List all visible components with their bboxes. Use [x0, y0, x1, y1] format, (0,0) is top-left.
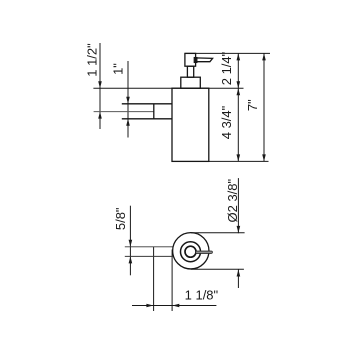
svg-text:Ø2 3/8": Ø2 3/8": [225, 178, 240, 222]
svg-text:1": 1": [111, 63, 126, 75]
svg-text:1 1/8": 1 1/8": [185, 288, 219, 303]
svg-text:7": 7": [245, 99, 260, 111]
svg-text:4 3/4": 4 3/4": [219, 105, 234, 139]
svg-text:2 1/4": 2 1/4": [219, 51, 234, 85]
svg-text:1 1/2": 1 1/2": [84, 43, 99, 77]
svg-text:5/8": 5/8": [113, 207, 128, 230]
